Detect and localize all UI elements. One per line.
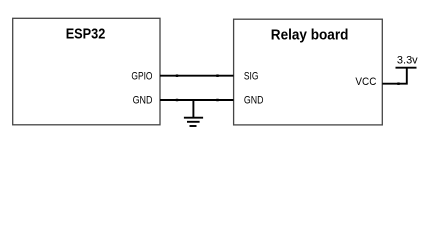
svg-text:VCC: VCC bbox=[355, 76, 376, 88]
wire GPIO-SIG bbox=[160, 75, 234, 77]
waypoint on GPIO-SIG wire bbox=[176, 74, 178, 77]
waypoint on GND-GND wire bbox=[176, 99, 178, 102]
svg-text:SIG: SIG bbox=[244, 71, 259, 83]
ground symbol bbox=[184, 118, 203, 126]
svg-text:ESP32: ESP32 bbox=[66, 26, 106, 43]
svg-text:GND: GND bbox=[244, 95, 264, 107]
waypoint on GPIO-SIG wire bbox=[216, 74, 218, 77]
wire VCC to 3.3v bbox=[382, 68, 407, 84]
wire ground stub bbox=[192, 100, 194, 118]
waypoint on VCC wire bbox=[397, 82, 399, 85]
wire GND-GND bbox=[160, 99, 234, 101]
svg-text:3.3v: 3.3v bbox=[397, 55, 418, 67]
power rail 3.3v bar bbox=[396, 67, 417, 69]
box ESP32 U1 bbox=[13, 18, 160, 125]
svg-text:Relay board: Relay board bbox=[271, 27, 349, 43]
box Relay board U2 bbox=[234, 19, 383, 125]
svg-text:GND: GND bbox=[133, 95, 153, 107]
svg-text:GPIO: GPIO bbox=[131, 71, 152, 83]
waypoint on GND-GND wire bbox=[216, 99, 218, 102]
